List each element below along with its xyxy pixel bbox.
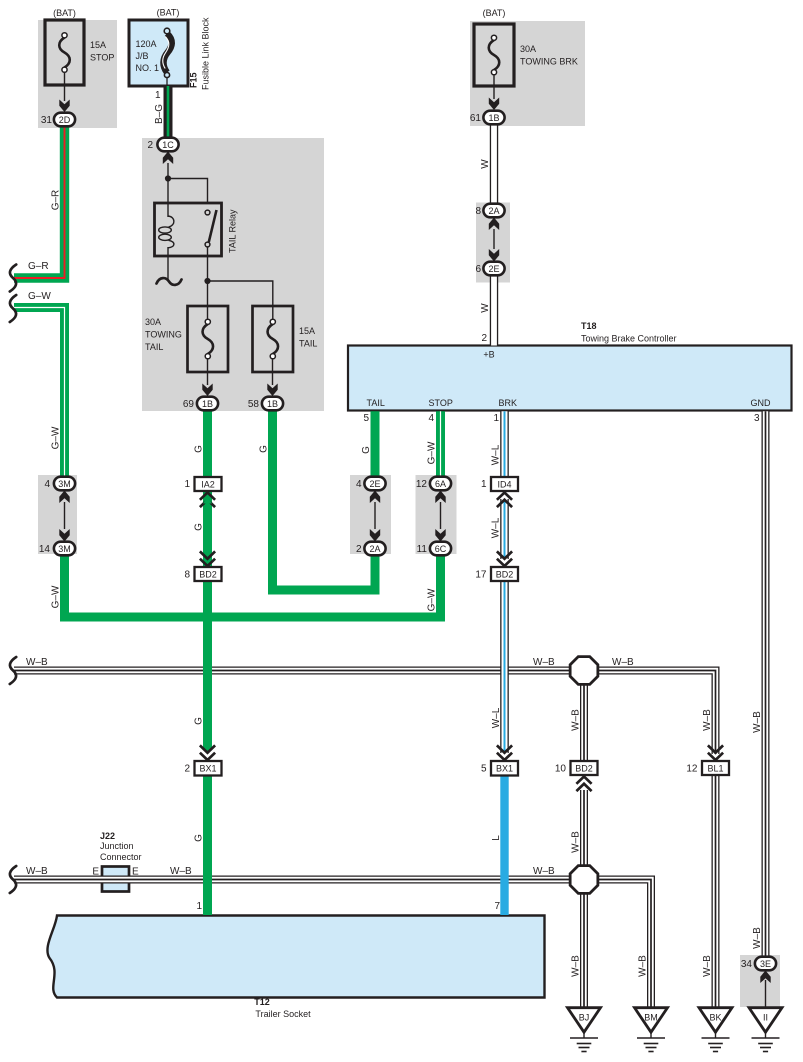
fuse 15A TAIL symbol (268, 319, 279, 359)
relay box TAIL Relay (155, 203, 222, 256)
svg-text:BX1: BX1 (496, 764, 513, 774)
svg-text:W–B: W–B (571, 831, 582, 853)
wire: W-L from BD2-17 down to BX1-5 (500, 581, 509, 753)
svg-text:12: 12 (416, 479, 428, 490)
connector pair 4-3M / 14-3M arrows (59, 491, 69, 504)
svg-text:(BAT): (BAT) (53, 8, 76, 18)
arrow into connector 34-3E (760, 971, 770, 984)
wire: node B branch right and down to 15A TAIL fuse (208, 281, 273, 320)
inline connector 5-BX1 box (491, 761, 518, 776)
connector oval 12-6A (430, 477, 451, 491)
wire: W-B horizontal 1 left segment (break to octagon) (14, 667, 570, 675)
relay switch blade (209, 210, 217, 242)
thin wire: 30A TOWING BRK fuse to arrow above 61-1B (493, 76, 495, 100)
break squiggle: G-R wire to other page (10, 265, 16, 292)
svg-text:3: 3 (754, 413, 760, 424)
svg-text:STOP: STOP (429, 398, 453, 408)
svg-text:1: 1 (155, 90, 161, 101)
svg-text:W: W (480, 303, 491, 313)
junction dot node A (165, 175, 171, 181)
thin wire: 1C arrow down to junction node A (167, 163, 169, 179)
wire: W-B octagon 1 down to BD2-10 (580, 683, 588, 761)
svg-text:W–L: W–L (491, 517, 502, 538)
squiggle: coil feed continues (tilde) (157, 278, 182, 285)
svg-text:4: 4 (44, 479, 50, 490)
svg-text:8: 8 (184, 570, 190, 581)
svg-text:2: 2 (184, 764, 190, 775)
inline connector 8-BD2 box (195, 567, 222, 581)
svg-text:6A: 6A (435, 479, 446, 489)
chevrons above BD2-17 (497, 551, 512, 566)
fuse 15A STOP box (45, 20, 84, 85)
svg-text:1C: 1C (162, 140, 174, 150)
svg-text:G–W: G–W (427, 441, 438, 464)
junction octagon 1 (570, 657, 598, 685)
svg-text:W–B: W–B (26, 866, 48, 877)
gray block: connector 34-3E (740, 955, 780, 1007)
ground BK (699, 1008, 732, 1052)
svg-text:W–B: W–B (571, 955, 582, 977)
svg-text:+B: +B (483, 350, 494, 360)
svg-text:2A: 2A (369, 544, 380, 554)
connector oval 31-2D (54, 113, 75, 127)
svg-text:Trailer Socket: Trailer Socket (255, 1009, 311, 1019)
green tip below IA2 chevrons (203, 497, 212, 504)
wire: W-B octagon 2 down to ground BJ (580, 892, 588, 1008)
svg-text:J/B: J/B (136, 51, 149, 61)
svg-text:STOP: STOP (90, 53, 114, 63)
connector oval 11-6C (430, 542, 451, 556)
svg-text:BJ: BJ (579, 1013, 590, 1023)
chevrons below BD2-10 (576, 777, 591, 792)
inline connector 2-BX1 box (195, 761, 222, 776)
relay coil (159, 216, 174, 248)
svg-text:T18: T18 (581, 321, 597, 331)
svg-text:11: 11 (417, 544, 428, 555)
svg-text:58: 58 (248, 399, 260, 410)
svg-text:TAIL: TAIL (367, 398, 385, 408)
svg-text:4: 4 (428, 413, 434, 424)
svg-text:E: E (132, 867, 139, 878)
svg-text:1B: 1B (488, 113, 499, 123)
svg-text:(BAT): (BAT) (157, 8, 180, 18)
svg-text:BL1: BL1 (707, 764, 723, 774)
arrow into connector 2-1C (163, 152, 173, 165)
relay switch contacts (205, 210, 210, 215)
svg-text:2: 2 (481, 333, 487, 344)
connector oval 2-1C (157, 138, 178, 152)
svg-text:2: 2 (147, 140, 153, 151)
chevrons above BL1-12 (708, 745, 723, 760)
arrow into connector 61-1B (489, 98, 499, 111)
gray block: 15A STOP fuse area (38, 20, 117, 128)
svg-text:17: 17 (475, 570, 487, 581)
svg-text:L: L (491, 835, 502, 841)
svg-text:1B: 1B (202, 399, 213, 409)
wire: G from T18 TAIL pin 5 down to 4-2E (371, 411, 380, 477)
wire: W-B horizontal 2 (break through J22 to octagon 2) (14, 876, 570, 884)
svg-text:6C: 6C (435, 544, 447, 554)
inline connector 17-BD2 box (491, 567, 518, 581)
trailer socket T12 box (47, 916, 544, 998)
svg-text:1: 1 (184, 479, 190, 490)
svg-text:4: 4 (356, 479, 362, 490)
gray block: connectors 8-2A / 6-2E (476, 203, 510, 283)
wire: W-L between ID4 and BD2-17 (500, 499, 509, 559)
wire: W-B BD2-10 down to octagon 2 (580, 790, 588, 867)
svg-text:BD2: BD2 (575, 764, 593, 774)
inline connector 10-BD2 box (571, 761, 598, 775)
wire: node A branch right to relay switch (168, 179, 208, 205)
wire: G from 69-1B down to IA2 (pointed tip at chevron) (203, 411, 212, 747)
fuse 30A TOWING TAIL symbol (203, 319, 214, 359)
svg-text:W–B: W–B (26, 657, 48, 668)
svg-text:W–B: W–B (612, 657, 634, 668)
connector oval 4-2E (364, 477, 385, 491)
svg-text:1B: 1B (267, 399, 278, 409)
svg-text:2E: 2E (488, 264, 499, 274)
svg-text:3E: 3E (760, 959, 771, 969)
svg-text:G: G (361, 446, 372, 454)
svg-text:TOWING: TOWING (145, 330, 182, 340)
arrow into connector 58-1B (267, 384, 277, 397)
fusible link block F15 (120A J/B NO.1) (129, 20, 188, 86)
svg-text:E: E (92, 867, 99, 878)
wire: L from BX1-5 down into trailer socket T12 pin 7 (500, 776, 508, 916)
connector pair 8-2A / 6-2E arrows (489, 218, 499, 231)
break squiggle: W-B horizontal 1 (10, 657, 16, 684)
thin wire: 15A TAIL fuse to arrow above 58-1B (272, 358, 274, 385)
svg-text:TOWING BRK: TOWING BRK (520, 57, 578, 67)
arrow into connector 69-1B (202, 384, 212, 397)
svg-text:W–B: W–B (571, 709, 582, 731)
fuse 30A TOWING BRK symbol (489, 35, 500, 75)
wire: G-W from 14-3M down, right, up to 11-6C (65, 555, 441, 617)
svg-text:31: 31 (41, 115, 53, 126)
svg-text:G–W: G–W (28, 291, 51, 302)
wire: node A down to relay coil (167, 179, 169, 218)
svg-text:Fusible Link Block: Fusible Link Block (201, 17, 211, 90)
wire: relay switch down to junction node B (207, 247, 209, 281)
svg-text:W–B: W–B (533, 657, 555, 668)
svg-text:(BAT): (BAT) (483, 8, 506, 18)
svg-text:W–B: W–B (702, 709, 713, 731)
svg-text:2E: 2E (369, 479, 380, 489)
svg-text:14: 14 (39, 544, 51, 555)
svg-text:W–L: W–L (491, 444, 502, 465)
svg-text:BM: BM (644, 1013, 658, 1023)
thin wire: 30A TOWING TAIL fuse to arrow above 69-1B (207, 358, 209, 385)
break squiggle: W-B horizontal 2 (10, 866, 16, 893)
svg-text:ID4: ID4 (497, 480, 511, 490)
connector oval 6-2E (483, 262, 504, 276)
svg-text:G: G (194, 717, 205, 725)
ground BJ (568, 1008, 601, 1052)
svg-text:Junction: Junction (100, 841, 134, 851)
svg-text:61: 61 (470, 113, 482, 124)
junction dot node B (204, 278, 210, 284)
svg-text:W–B: W–B (702, 955, 713, 977)
wire: W from 6-2E down to T18 +B pin 2 (490, 276, 498, 346)
svg-text:TAIL: TAIL (299, 339, 317, 349)
svg-text:W–B: W–B (170, 866, 192, 877)
wire: W-L from T18 BRK pin 1 down to ID4 (500, 411, 509, 477)
svg-text:G–R: G–R (51, 190, 62, 211)
fuse 30A TOWING TAIL box (188, 306, 229, 372)
svg-text:G–W: G–W (51, 426, 62, 449)
svg-text:J22: J22 (100, 831, 115, 841)
fusible link 120A symbol inside F15 (163, 28, 172, 86)
wire: W from 61-1B down to 8-2A (490, 125, 498, 203)
svg-text:BD2: BD2 (496, 570, 514, 580)
svg-text:G: G (194, 445, 205, 453)
chevrons above BX1-2 (200, 745, 215, 760)
connector oval 61-1B (483, 111, 504, 125)
wire: W-B octagon 2 right then down to ground BM (598, 880, 651, 1009)
svg-text:15A: 15A (299, 326, 315, 336)
connector oval 8-2A (483, 204, 504, 218)
svg-text:G: G (259, 445, 270, 453)
connector oval 4-3M (54, 477, 75, 491)
svg-text:2D: 2D (59, 115, 71, 125)
svg-text:W–B: W–B (752, 927, 763, 949)
svg-text:30A: 30A (145, 317, 161, 327)
connector oval 2-2A (364, 542, 385, 556)
svg-text:120A: 120A (136, 39, 157, 49)
connector oval 14-3M (54, 542, 75, 556)
svg-text:8: 8 (475, 206, 481, 217)
fuse 15A STOP symbol (59, 33, 70, 73)
svg-text:G: G (194, 523, 205, 531)
svg-text:BX1: BX1 (199, 764, 216, 774)
svg-text:W–B: W–B (638, 955, 649, 977)
fuse 30A TOWING BRK box (474, 24, 514, 86)
wire: G below BX1-2 down into trailer socket T12 pin 1 (203, 776, 212, 916)
svg-text:TAIL: TAIL (145, 342, 163, 352)
svg-text:G–W: G–W (427, 588, 438, 611)
towing brake controller T18 box (348, 346, 792, 411)
svg-text:12: 12 (686, 764, 698, 775)
svg-text:T12: T12 (254, 997, 270, 1007)
gray block: connectors 4-3M / 14-3M (38, 475, 77, 554)
svg-text:B–G: B–G (154, 104, 165, 124)
svg-text:BD2: BD2 (199, 570, 217, 580)
wire: W-B from BL1 down to ground BK (712, 776, 720, 1009)
svg-text:5: 5 (363, 413, 369, 424)
svg-text:G–R: G–R (28, 261, 49, 272)
svg-text:F15: F15 (189, 72, 199, 88)
svg-text:G: G (194, 834, 205, 842)
svg-text:15A: 15A (90, 40, 106, 50)
svg-text:W–B: W–B (752, 711, 763, 733)
svg-text:1: 1 (493, 413, 499, 424)
svg-text:7: 7 (494, 901, 500, 912)
svg-text:W–L: W–L (491, 707, 502, 728)
svg-text:G–W: G–W (51, 585, 62, 608)
gray block: 30A TOWING BRK fuse area (470, 21, 585, 126)
wire: B-G from F15 pin 1 down to 2-1C (164, 86, 173, 138)
wire: G tip into BX1 chevron (203, 747, 212, 754)
wire: node B down to 30A TOWING TAIL fuse (207, 281, 209, 320)
connector pair 12-6A / 11-6C arrows (435, 491, 445, 504)
svg-text:GND: GND (751, 398, 772, 408)
svg-text:IA2: IA2 (201, 480, 215, 490)
wire: relay coil down to squiggle (167, 247, 169, 280)
break squiggle: G-W wire from other page (10, 295, 16, 322)
svg-text:1: 1 (481, 479, 487, 490)
connector oval 58-1B (262, 397, 283, 411)
gray block: connectors 4-2E / 2-2A (350, 475, 391, 554)
inline connector 1-IA2 box (195, 477, 222, 491)
svg-text:1: 1 (196, 901, 202, 912)
svg-text:BK: BK (709, 1013, 721, 1023)
wire: W-B horizontal 1 right segment, corner down to BL1 (598, 671, 716, 755)
svg-text:2A: 2A (488, 206, 499, 216)
svg-text:30A: 30A (520, 44, 536, 54)
chevrons above BD2-8 (200, 551, 215, 566)
svg-text:69: 69 (183, 399, 195, 410)
thin wire: 15A STOP fuse to arrow above 31-2D (64, 73, 66, 101)
svg-text:6: 6 (475, 264, 481, 275)
chevrons below IA2 (200, 493, 215, 508)
svg-text:TAIL Relay: TAIL Relay (228, 209, 238, 253)
thin wire: connector 34-3E down to ground II (765, 980, 767, 1009)
wire: W-B from T18 GND pin 3 down to connector 34-3E (762, 411, 770, 956)
svg-text:Towing Brake Controller: Towing Brake Controller (581, 334, 677, 344)
wire: G-W from T18 STOP pin 4 down to 12-6A (436, 411, 445, 477)
ground BM (635, 1008, 668, 1052)
chevrons below ID4 (497, 493, 512, 508)
svg-text:W–B: W–B (533, 866, 555, 877)
junction octagon 2 (570, 866, 598, 894)
svg-text:34: 34 (741, 959, 753, 970)
svg-text:II: II (763, 1013, 768, 1023)
wire: G-R from 31-2D down and left to break (14, 126, 65, 278)
wire: G from 58-1B down, right, up to 2-2A (273, 411, 376, 590)
svg-text:5: 5 (481, 764, 487, 775)
svg-text:2: 2 (356, 544, 362, 555)
connector pair 4-2E / 2-2A arrows (370, 491, 380, 504)
inline connector 1-ID4 box (491, 477, 518, 491)
ground II (749, 1008, 782, 1052)
gray block: connectors 12-6A / 11-6C (416, 475, 457, 554)
svg-text:W: W (480, 159, 491, 169)
svg-text:10: 10 (555, 764, 567, 775)
junction connector J22 box (102, 867, 129, 892)
svg-text:Connector: Connector (100, 852, 142, 862)
svg-text:3M: 3M (58, 479, 71, 489)
inline connector 12-BL1 box (702, 761, 729, 775)
chevrons above BX1-5 (497, 745, 512, 760)
svg-text:3M: 3M (58, 544, 71, 554)
connector oval 34-3E (755, 957, 776, 971)
wire: G-W from break right and down to 4-3M (14, 308, 65, 478)
arrow into connector 31-2D (59, 100, 69, 113)
connector oval 69-1B (197, 397, 218, 411)
svg-text:NO. 1: NO. 1 (136, 63, 160, 73)
fuse 15A TAIL box (253, 306, 294, 372)
svg-text:BRK: BRK (499, 398, 518, 408)
gray block: TAIL relay / towing fuses area (142, 138, 324, 411)
